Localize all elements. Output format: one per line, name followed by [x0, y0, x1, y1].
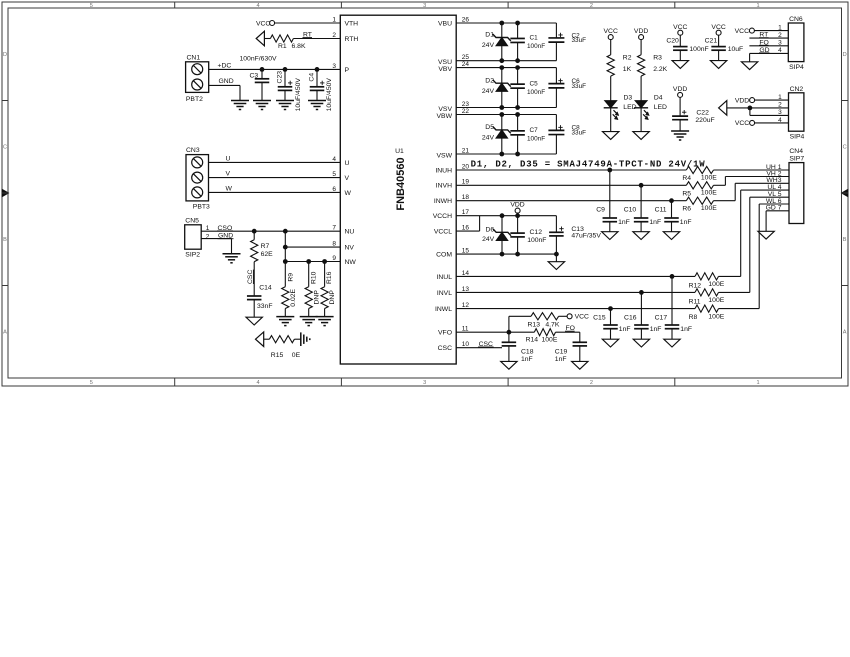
ground CN4 GD — [758, 231, 774, 239]
junction D5 bottom — [499, 152, 504, 157]
svg-text:SIP4: SIP4 — [790, 133, 805, 140]
wire CN6 pin1 — [754, 30, 788, 32]
VCC power symbol above C21 — [716, 30, 721, 35]
svg-text:R5: R5 — [682, 190, 691, 197]
svg-text:VCC: VCC — [735, 120, 749, 127]
capacitor C22 220uF — [679, 97, 681, 116]
resistor R11 100E — [695, 289, 719, 296]
wire net FO CN6 pin3 — [749, 45, 788, 47]
svg-text:R12: R12 — [689, 282, 702, 289]
svg-text:SIP4: SIP4 — [789, 64, 804, 71]
svg-text:C20: C20 — [666, 37, 679, 44]
VDD power symbol at CN2 pin1 — [750, 98, 755, 103]
svg-text:FNB40560: FNB40560 — [395, 157, 407, 210]
ground (bar) C22 — [671, 130, 689, 132]
wire U1 pin 11 VFO — [456, 331, 509, 333]
svg-text:100E: 100E — [708, 313, 724, 320]
ground C9 — [602, 232, 618, 240]
svg-text:3: 3 — [423, 380, 426, 386]
svg-text:18: 18 — [462, 194, 470, 201]
svg-text:12: 12 — [462, 302, 470, 309]
capacitor C14 33nF — [247, 295, 262, 297]
svg-text:3: 3 — [423, 3, 426, 9]
svg-text:VBV: VBV — [438, 66, 452, 73]
svg-text:VFO: VFO — [438, 330, 452, 337]
ground C21 — [710, 61, 726, 69]
capacitor C16 1nF — [640, 292, 642, 325]
capacitor C3 — [261, 69, 263, 78]
wire VS rail D5 group — [456, 153, 556, 155]
wire COM to ground — [555, 254, 557, 262]
ground D4 — [633, 132, 649, 140]
svg-text:13: 13 — [462, 286, 470, 293]
svg-text:220uF: 220uF — [695, 117, 714, 124]
svg-text:INVH: INVH — [436, 183, 452, 190]
wire U1 pin 10 CSC stub — [456, 347, 502, 349]
wire +DC to pin 3 P — [209, 68, 341, 70]
ground (bar) R10 — [300, 316, 318, 318]
ground C20 — [672, 61, 688, 69]
ground (bar) CN1 — [231, 100, 249, 102]
zener diode D1 24V — [501, 23, 503, 38]
svg-text:SIP2: SIP2 — [185, 251, 200, 258]
svg-text:B: B — [843, 237, 847, 243]
wire CSO tap down through NV NW — [284, 231, 286, 287]
svg-text:4: 4 — [332, 156, 336, 163]
wire CN2 pin2 — [727, 107, 789, 109]
junction CSO vertical — [283, 229, 288, 234]
svg-text:100nF: 100nF — [527, 237, 546, 244]
resistor R4 100E — [686, 166, 713, 173]
svg-text:RTH: RTH — [345, 36, 359, 43]
ground C16 — [633, 339, 649, 347]
capacitor C1 100nF — [517, 23, 519, 38]
svg-text:INWL: INWL — [435, 306, 452, 313]
capacitor C5 100nF — [517, 68, 519, 85]
zener diode D2 24V — [501, 68, 503, 84]
junction C16 tap — [639, 290, 644, 295]
svg-text:VCC: VCC — [711, 24, 725, 31]
svg-text:2: 2 — [590, 3, 593, 9]
resistor R9 0.02E — [282, 287, 289, 309]
svg-text:5: 5 — [332, 171, 336, 178]
svg-text:LED: LED — [654, 104, 667, 111]
wire U1 pin 18 INWH line — [456, 200, 686, 202]
svg-text:D6: D6 — [485, 226, 494, 233]
svg-text:C19: C19 — [555, 349, 568, 356]
svg-text:R3: R3 — [653, 55, 662, 62]
svg-text:W: W — [345, 190, 352, 197]
ground (bar) R9 — [276, 316, 294, 318]
wire net RT CN6 pin2 — [749, 37, 788, 39]
svg-text:14: 14 — [462, 270, 470, 277]
svg-text:VCCL: VCCL — [434, 229, 452, 236]
resistor R1 — [264, 38, 270, 40]
svg-text:3: 3 — [332, 63, 336, 70]
svg-text:VDD: VDD — [673, 86, 687, 93]
svg-text:V: V — [345, 175, 350, 182]
svg-text:C4: C4 — [308, 73, 315, 82]
svg-text:R1: R1 — [278, 43, 287, 50]
wire VB rail D2 group — [456, 67, 556, 69]
wire R6 to CN4 WH — [714, 200, 736, 202]
svg-text:24V: 24V — [482, 236, 495, 243]
svg-text:100E: 100E — [708, 297, 724, 304]
svg-text:100nF/630V: 100nF/630V — [240, 56, 278, 63]
svg-text:D4: D4 — [654, 94, 663, 101]
junction D1 top — [499, 21, 504, 26]
junction D6 top — [500, 213, 505, 218]
svg-text:R14: R14 — [526, 337, 539, 344]
svg-text:VCC: VCC — [256, 20, 270, 27]
resistor R13 4.7K — [531, 313, 559, 320]
svg-text:C3: C3 — [250, 72, 259, 79]
svg-text:INWH: INWH — [434, 198, 452, 205]
junction NV tap — [283, 245, 288, 250]
wire CN6 pin4 to ground — [750, 52, 789, 54]
svg-text:1K: 1K — [623, 66, 632, 73]
svg-text:6.8K: 6.8K — [292, 43, 306, 50]
svg-text:R6: R6 — [682, 206, 691, 213]
wire CN4 pin7 GD to ground — [766, 210, 789, 212]
svg-text:VCC: VCC — [673, 24, 687, 31]
svg-text:100E: 100E — [701, 205, 717, 212]
connector CN2 SIP4 — [789, 93, 804, 131]
wire U1 pin 15 COM rail — [456, 253, 556, 255]
svg-text:C5: C5 — [530, 80, 539, 87]
wire R12 to CN4 UL — [719, 275, 741, 277]
svg-text:1: 1 — [757, 3, 760, 9]
junction C15 tap — [608, 306, 613, 311]
wire VB rail D5 group — [456, 114, 556, 116]
wire net W CN3 to U1 — [209, 191, 341, 193]
svg-text:B: B — [3, 237, 7, 243]
wire CN2 pin4 — [755, 122, 789, 124]
svg-text:2.2K: 2.2K — [653, 66, 667, 73]
wire R3 to D4 — [640, 76, 642, 101]
connector CN5 SIP2 — [185, 225, 202, 249]
svg-text:1nF: 1nF — [650, 326, 662, 333]
svg-text:PBT3: PBT3 — [193, 203, 210, 210]
svg-text:19: 19 — [462, 179, 470, 186]
off-page arrow at CN2 pin2 — [719, 101, 727, 116]
svg-text:2: 2 — [206, 233, 210, 240]
svg-text:R8: R8 — [689, 314, 698, 321]
resistor R3 2.2K — [640, 40, 642, 55]
wire U1 pin 13 INVL line — [456, 291, 695, 293]
zener diode D6 24V — [501, 216, 503, 233]
svg-text:CN5: CN5 — [185, 217, 199, 224]
wire VB rail D1 group — [456, 22, 556, 24]
svg-text:24V: 24V — [482, 88, 495, 95]
wire VS rail D1 group — [456, 60, 556, 62]
svg-text:NU: NU — [345, 229, 355, 236]
wire U1 pin 19 INVH line — [456, 184, 686, 186]
svg-text:DNP: DNP — [329, 290, 336, 305]
wire D4 cathode — [640, 108, 642, 132]
svg-text:16: 16 — [462, 225, 470, 232]
svg-text:2: 2 — [332, 32, 336, 39]
svg-text:CN6: CN6 — [789, 16, 803, 23]
capacitor C13 47uF/35V — [555, 216, 557, 233]
IC U1 FNB40560 body — [340, 15, 456, 364]
wire U1 pin 16 VCCL stub — [456, 230, 479, 232]
svg-text:7: 7 — [332, 225, 336, 232]
svg-text:1: 1 — [757, 380, 760, 386]
junction C12 top — [515, 213, 520, 218]
svg-text:GND: GND — [219, 78, 234, 85]
svg-text:+DC: +DC — [218, 63, 232, 70]
svg-text:4: 4 — [256, 3, 259, 9]
wire net V CN3 to U1 — [209, 177, 341, 179]
junction C9 tap — [607, 168, 612, 173]
ground C18 — [501, 361, 517, 369]
svg-text:100nF: 100nF — [527, 135, 545, 142]
svg-text:C17: C17 — [655, 315, 668, 322]
svg-text:V: V — [226, 171, 231, 178]
wire CN2 pin3 tie — [749, 108, 751, 116]
VCC power symbol above R2 — [608, 35, 613, 40]
capacitor C18 1nF — [508, 332, 510, 342]
svg-text:DNP: DNP — [313, 290, 320, 305]
svg-text:D1: D1 — [485, 32, 494, 39]
svg-text:4: 4 — [256, 380, 259, 386]
junction C3 on P rail — [260, 67, 265, 72]
svg-text:INUH: INUH — [435, 167, 452, 174]
junction C17 tap — [670, 274, 675, 279]
capacitor C21 10uF — [718, 35, 720, 46]
svg-text:11: 11 — [462, 326, 469, 333]
svg-text:VCC: VCC — [604, 28, 618, 35]
wire net U CN3 to U1 — [209, 161, 341, 163]
wire CN5 pin2 GND — [201, 238, 231, 240]
svg-text:100E: 100E — [542, 337, 558, 344]
connector CN3 PBT3 — [186, 155, 209, 201]
svg-text:VDD: VDD — [510, 202, 524, 209]
off-page arrow at R15 — [256, 332, 264, 347]
svg-text:VCC: VCC — [575, 314, 589, 321]
svg-text:VBU: VBU — [438, 20, 452, 27]
capacitor C10 1nF — [640, 185, 642, 218]
svg-text:24: 24 — [462, 61, 470, 68]
ground (bar) C23 — [276, 100, 294, 102]
resistor R10 DNP — [308, 262, 310, 287]
junction C10 tap — [639, 183, 644, 188]
svg-text:SIP7: SIP7 — [789, 155, 804, 162]
svg-text:0.02E: 0.02E — [290, 288, 297, 306]
svg-text:C16: C16 — [624, 315, 637, 322]
junction C11 tap — [669, 198, 674, 203]
connector CN4 SIP7 — [789, 163, 804, 224]
svg-text:PBT2: PBT2 — [186, 96, 203, 103]
wire R14 to FO / C19 — [556, 331, 580, 333]
junction C12 bottom — [515, 252, 520, 257]
svg-text:INUL: INUL — [437, 274, 453, 281]
svg-text:R11: R11 — [689, 298, 701, 305]
junction C4 on P rail — [315, 67, 320, 72]
svg-text:C12: C12 — [530, 229, 543, 236]
capacitor C17 1nF — [671, 276, 673, 325]
junction D6 bottom — [500, 252, 505, 257]
svg-text:6: 6 — [332, 186, 336, 193]
VDD power symbol above C22 — [678, 92, 683, 97]
svg-text:CN3: CN3 — [186, 147, 200, 154]
junction C1 bottom — [515, 58, 520, 63]
junction R16 on NW — [322, 259, 327, 264]
VCC power symbol above C20 — [678, 30, 683, 35]
ground C14 — [246, 317, 262, 325]
wire D3 cathode — [610, 108, 612, 132]
svg-text:U: U — [226, 155, 231, 162]
svg-text:NV: NV — [345, 245, 355, 252]
svg-text:9: 9 — [332, 255, 336, 262]
svg-text:R7: R7 — [261, 243, 270, 250]
svg-text:62E: 62E — [261, 251, 274, 258]
VCC power symbol at U1 pin 1 — [270, 21, 275, 26]
VCC power symbol at CN6 pin1 — [749, 28, 754, 33]
capacitor C9 1nF — [609, 170, 611, 218]
ground C15 — [602, 339, 618, 347]
wire U1 pin 17 VCCH rail — [456, 215, 556, 217]
ground (bar, rotated) R15 — [300, 332, 302, 346]
svg-text:24V: 24V — [482, 135, 495, 142]
svg-text:A: A — [3, 330, 7, 336]
capacitor C20 100nF — [679, 35, 681, 46]
svg-text:C21: C21 — [705, 37, 718, 44]
svg-text:1nF: 1nF — [680, 326, 692, 333]
capacitor C6 33uF — [555, 68, 557, 84]
svg-text:COM: COM — [436, 252, 452, 259]
VCC power symbol at CN2 pin4 — [750, 120, 755, 125]
svg-text:C1: C1 — [530, 35, 539, 42]
resistor R14 100E — [534, 329, 555, 336]
ground (bar) C3 — [253, 100, 271, 102]
wire U1 pin 8 NV — [285, 246, 340, 248]
resistor R2 1K — [610, 40, 612, 55]
svg-text:17: 17 — [462, 209, 470, 216]
svg-text:10uF/450V: 10uF/450V — [295, 78, 302, 112]
svg-text:8: 8 — [332, 241, 336, 248]
svg-text:R4: R4 — [682, 175, 691, 182]
resistor R5 100E — [686, 182, 713, 189]
svg-text:NW: NW — [345, 259, 357, 266]
resistor R12 100E — [695, 273, 719, 280]
resistor R6 100E — [686, 197, 713, 204]
svg-text:33uF: 33uF — [572, 37, 587, 44]
junction C5 top — [515, 65, 520, 70]
ground COM — [548, 262, 564, 270]
svg-text:4.7K: 4.7K — [545, 322, 559, 329]
wire R8 to CN4 WL — [719, 308, 760, 310]
wire VS rail D2 group — [456, 107, 556, 109]
capacitor C12 100nF — [517, 216, 519, 233]
svg-text:C10: C10 — [624, 207, 637, 214]
wire CN1 GND — [209, 84, 240, 86]
resistor R8 100E — [695, 305, 719, 312]
ground (bar) CN5 — [223, 253, 241, 255]
svg-text:5: 5 — [90, 3, 93, 9]
wire R7 to C14 net CSC — [253, 262, 255, 296]
junction C23 on P rail — [283, 67, 288, 72]
svg-text:100E: 100E — [708, 281, 724, 288]
wire U1 pin 9 NW — [285, 261, 340, 263]
wire U1 pin 14 INUL line — [456, 275, 695, 277]
VDD power symbol above C12 — [515, 208, 520, 213]
junction R7 on CSO — [252, 229, 257, 234]
svg-text:100nF: 100nF — [689, 46, 708, 53]
svg-text:1nF: 1nF — [619, 326, 631, 333]
svg-text:33nF: 33nF — [257, 303, 273, 310]
svg-text:1nF: 1nF — [555, 356, 567, 363]
svg-text:10uF: 10uF — [728, 46, 744, 53]
ground (bar) R16 — [316, 316, 334, 318]
capacitor C8 33uF — [555, 115, 557, 131]
junction C1 top — [515, 21, 520, 26]
svg-text:D2: D2 — [485, 77, 494, 84]
svg-text:5: 5 — [90, 380, 93, 386]
wire R5 to CN4 VH — [714, 184, 726, 186]
ground (bar) C4 — [308, 100, 326, 102]
junction D1 bottom — [499, 58, 504, 63]
junction C7 bottom — [515, 152, 520, 157]
capacitor C7 100nF — [517, 115, 519, 131]
svg-text:C: C — [3, 145, 7, 151]
wire R4 to CN4 UH — [714, 169, 790, 171]
svg-text:R13: R13 — [528, 322, 541, 329]
svg-text:100nF: 100nF — [527, 43, 545, 50]
junction D2 bottom — [499, 105, 504, 110]
LED D3 — [605, 101, 617, 108]
svg-text:100nF: 100nF — [527, 89, 545, 96]
svg-text:VBW: VBW — [437, 113, 453, 120]
ground CN6 pin4 — [741, 62, 757, 70]
ground C19 — [572, 361, 588, 369]
svg-text:VCCH: VCCH — [433, 213, 452, 220]
svg-text:C9: C9 — [596, 207, 605, 214]
svg-text:47uF/35V: 47uF/35V — [571, 233, 601, 240]
capacitor C2 33uF — [555, 23, 557, 38]
VDD power symbol above R3 — [639, 35, 644, 40]
svg-text:100E: 100E — [701, 190, 717, 197]
wire CSO CN5 pin1 to U1 pin 7 NU — [201, 230, 340, 232]
off-page arrow to thermistor RT — [256, 31, 264, 46]
svg-text:20: 20 — [462, 163, 470, 170]
svg-text:1nF: 1nF — [618, 219, 630, 226]
svg-text:U1: U1 — [395, 148, 404, 155]
svg-text:W: W — [226, 185, 233, 192]
junction NW tap — [283, 259, 288, 264]
junction D2 top — [499, 65, 504, 70]
svg-text:R15: R15 — [271, 352, 284, 359]
svg-text:24V: 24V — [482, 42, 495, 49]
svg-text:22: 22 — [462, 108, 470, 115]
zener diode D5 24V — [501, 115, 503, 130]
resistor R16 DNP — [324, 262, 326, 287]
svg-text:0E: 0E — [292, 352, 301, 359]
junction D5 top — [499, 112, 504, 117]
svg-text:VCC: VCC — [735, 28, 749, 35]
svg-text:D5: D5 — [485, 124, 494, 131]
svg-text:33uF: 33uF — [572, 129, 587, 136]
svg-text:C18: C18 — [521, 349, 534, 356]
svg-text:A: A — [843, 330, 847, 336]
wire VCC to pin 1 VTH — [275, 22, 341, 24]
svg-text:2: 2 — [590, 380, 593, 386]
VCC power symbol at R13 — [567, 314, 572, 319]
svg-text:1nF: 1nF — [680, 219, 692, 226]
resistor R7 62E — [253, 231, 255, 240]
wire net RT to pin 2 RTH — [293, 38, 340, 40]
